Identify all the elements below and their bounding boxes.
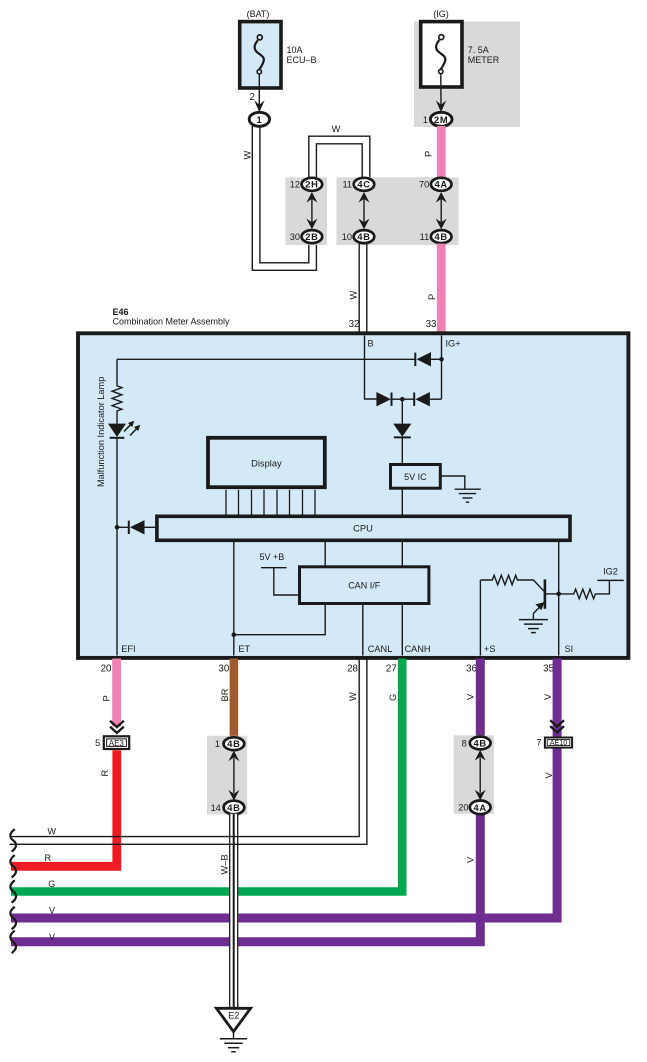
svg-text:EFI: EFI — [121, 644, 135, 654]
svg-text:2: 2 — [250, 92, 255, 103]
5V IC box — [391, 465, 441, 489]
connector oval 1 — [249, 112, 269, 126]
svg-text:IG+: IG+ — [446, 339, 461, 349]
svg-text:V: V — [466, 693, 476, 700]
arrow into connector 1 — [254, 100, 264, 112]
svg-text:CANH: CANH — [405, 644, 431, 654]
wire W-B from 4B pin 14 to E2 (white with black stripe) — [229, 814, 238, 1009]
svg-text:METER: METER — [468, 55, 500, 65]
wire fuse IG to connector 2M — [440, 74, 442, 106]
svg-text:7. 5A: 7. 5A — [468, 45, 489, 55]
connector oval 4B pin 11 — [420, 230, 452, 243]
svg-text:33: 33 — [426, 319, 437, 330]
pin number 2 — [250, 92, 255, 103]
svg-text:V: V — [466, 856, 476, 863]
svg-text:5V IC: 5V IC — [404, 472, 427, 482]
svg-text:2B: 2B — [305, 232, 318, 242]
wire label W (rotated) — [243, 151, 253, 160]
label 7.5A METER — [468, 45, 500, 65]
node junction dot MIL — [115, 525, 120, 530]
node junction dot ET — [232, 632, 237, 637]
svg-text:(IG): (IG) — [433, 9, 449, 19]
wire V violet SI to left edge (upper) — [11, 659, 557, 919]
CPU box — [157, 516, 570, 540]
continuation squiggle W — [10, 829, 16, 851]
svg-text:4B: 4B — [227, 739, 240, 749]
connector oval 4B pin 10 — [342, 230, 375, 243]
svg-text:1: 1 — [256, 115, 262, 125]
svg-text:SI: SI — [565, 644, 574, 654]
wire MIL top horizontal — [117, 358, 415, 360]
svg-text:CPU: CPU — [353, 524, 373, 534]
transistor Q1 base bar — [544, 579, 547, 608]
LED malfunction indicator lamp — [108, 421, 140, 438]
wire V violet +S to left edge (lower) — [11, 659, 480, 942]
svg-text:W: W — [348, 692, 358, 701]
transistor Q1 emitter with arrow — [533, 602, 545, 620]
svg-text:4A: 4A — [435, 180, 448, 190]
node junction dot SI — [556, 592, 561, 597]
wire SI from CPU to pin 35 — [558, 540, 560, 655]
svg-text:1: 1 — [423, 115, 428, 125]
svg-text:2M: 2M — [434, 115, 448, 125]
pin name labels bottom — [121, 644, 573, 654]
label 5V +B — [260, 552, 285, 562]
display box — [208, 438, 325, 487]
wire CPU to CAN I/F left — [324, 540, 326, 566]
svg-text:4B: 4B — [474, 738, 487, 748]
wire MIL down to EFI pin — [116, 438, 118, 656]
svg-text:10: 10 — [342, 232, 352, 242]
wire W pin32 (double line) — [359, 244, 367, 332]
transistor Q1 collector — [545, 593, 559, 595]
label (IG) — [433, 9, 449, 19]
splice chevron at AE3 — [110, 721, 124, 733]
svg-text:P: P — [427, 294, 437, 300]
svg-text:W–B: W–B — [220, 854, 230, 874]
svg-text:70: 70 — [419, 180, 429, 190]
fuse 10A ECU-B (BAT) — [240, 22, 281, 88]
E46 header labels — [113, 307, 231, 327]
wire B line from pin 32 — [365, 336, 377, 400]
wire G green CANH to left edge — [11, 659, 402, 892]
connector oval 2M pin 1 — [423, 112, 452, 126]
wire CANH from CAN I/F to pin 27 — [401, 604, 403, 656]
connector oval 4C pin 11 — [342, 178, 374, 191]
left edge labels W R G V V — [45, 826, 57, 942]
junction block J/B gray box (IG fuse) — [414, 22, 520, 128]
arrow pair between 4C and 4B — [359, 192, 370, 229]
diode D5 (CPU to MIL) — [117, 520, 157, 534]
continuation squiggle R — [10, 855, 16, 877]
svg-text:CAN I/F: CAN I/F — [348, 581, 381, 591]
svg-text:1: 1 — [215, 739, 220, 749]
wire P pink EFI pin 20 — [112, 659, 121, 727]
svg-text:(BAT): (BAT) — [247, 9, 270, 19]
svg-text:P: P — [102, 695, 112, 701]
svg-text:W: W — [332, 124, 341, 134]
wire label W — [332, 124, 341, 134]
connector oval 2B pin 30 — [290, 230, 322, 243]
svg-text:20: 20 — [101, 663, 112, 674]
svg-text:R: R — [100, 770, 110, 777]
wire IG+ line from pin 33 — [441, 336, 443, 400]
wire label P (rotated) — [424, 151, 434, 157]
svg-text:5V +B: 5V +B — [260, 552, 285, 562]
IG2 terminal — [598, 567, 624, 581]
wire label P (rotated) — [427, 294, 437, 300]
diode D2 (B to center node) — [376, 392, 402, 406]
svg-text:30: 30 — [290, 232, 300, 242]
svg-text:+S: +S — [484, 644, 496, 654]
CAN I/F box — [300, 567, 429, 604]
resistor R-base — [480, 575, 545, 592]
ground at transistor — [519, 620, 548, 633]
arrow pair between 4B and 4A — [475, 750, 486, 800]
connector oval 4B pin 14 — [211, 801, 245, 815]
wire CANL from CAN I/F to pin 28 — [362, 604, 364, 656]
connector oval 4B pin 1 — [215, 737, 244, 750]
fuse 7.5A METER (IG) — [421, 22, 462, 87]
wire fuse BAT to connector 1 — [258, 74, 260, 106]
display to CPU comb wires — [226, 490, 315, 517]
svg-text:28: 28 — [347, 663, 358, 674]
svg-text:20: 20 — [458, 803, 468, 813]
pin numbers bottom — [101, 663, 555, 674]
arrow pair between 2H and 2B — [306, 192, 317, 229]
svg-text:32: 32 — [349, 319, 360, 330]
label (BAT) — [247, 9, 270, 19]
svg-text:ET: ET — [238, 644, 250, 654]
wire label V +S below connector (rotated) — [466, 856, 476, 863]
connector oval 4A pin 20 — [458, 801, 490, 815]
node IG+ label — [446, 339, 461, 349]
resistor R-MIL — [112, 359, 122, 423]
pin number 33 — [426, 319, 437, 330]
node junction dot IG+ — [439, 357, 444, 362]
svg-text:4B: 4B — [357, 232, 370, 242]
resistor R-IG2 — [559, 580, 610, 598]
arrow pair between 4B and 4B — [228, 751, 239, 801]
wire BR brown ET pin 30 — [230, 659, 239, 738]
svg-text:5: 5 — [95, 738, 100, 748]
connector gray box 4C/4B + 4A/4B — [337, 177, 459, 245]
svg-text:12: 12 — [290, 180, 300, 190]
connector oval 4A pin 70 — [419, 178, 452, 191]
connector AE10 pin 7 — [536, 738, 572, 748]
svg-text:V: V — [49, 932, 55, 942]
diode D3 (IG+ to center node) — [402, 392, 441, 406]
wire label V SI (rotated) — [543, 693, 553, 700]
svg-text:4A: 4A — [474, 803, 487, 813]
svg-text:30: 30 — [218, 663, 229, 674]
connector gray box 2H/2B — [286, 177, 328, 245]
wire W CANL to left edge (double line) — [10, 659, 367, 845]
svg-text:W: W — [48, 826, 57, 836]
svg-text:V: V — [543, 693, 553, 700]
wire CPU to CAN I/F right — [401, 540, 403, 566]
combination meter assembly box E46 — [78, 333, 628, 658]
svg-text:4C: 4C — [357, 180, 370, 190]
wire label BR (rotated) — [220, 688, 230, 701]
svg-text:10A: 10A — [287, 45, 303, 55]
continuation squiggle V lower — [10, 931, 16, 953]
svg-text:Display: Display — [251, 458, 282, 468]
svg-text:V: V — [49, 905, 55, 915]
connector AE3 pin 5 — [95, 736, 129, 749]
wire P pink pin33 — [437, 244, 446, 332]
svg-text:2H: 2H — [305, 180, 318, 190]
wire 5V +B feed to CAN I/F — [261, 568, 300, 595]
label 10A ECU-B — [287, 45, 317, 65]
wire W from 2H up right down to 4C (double line) — [309, 136, 370, 178]
arrow pair between 4A and 4B — [436, 192, 447, 229]
arrow into connector 2M — [436, 100, 446, 112]
wire 5V IC to CPU — [401, 488, 403, 516]
diode D4 (series down to 5V IC) — [393, 399, 411, 464]
svg-text:8: 8 — [462, 739, 467, 749]
svg-text:AE10: AE10 — [550, 738, 568, 747]
svg-text:Combination Meter Assembly: Combination Meter Assembly — [113, 317, 231, 327]
wire label W (rotated) — [349, 291, 359, 300]
svg-text:AE3: AE3 — [109, 739, 125, 748]
ground E2 — [216, 1008, 250, 1052]
svg-text:4B: 4B — [227, 803, 240, 813]
wire label V SI below AE10 (rotated) — [544, 772, 554, 779]
svg-text:R: R — [45, 853, 52, 863]
connector oval 2H pin 12 — [290, 178, 322, 191]
continuation squiggle G — [10, 880, 16, 902]
svg-text:11: 11 — [420, 232, 430, 242]
svg-text:E2: E2 — [228, 1011, 239, 1021]
svg-text:14: 14 — [211, 803, 221, 813]
node B label — [368, 339, 374, 349]
wire label W-B (rotated) — [220, 854, 230, 874]
svg-text:7: 7 — [536, 738, 541, 748]
svg-text:W: W — [243, 151, 253, 160]
wire +S line — [479, 580, 481, 656]
wire P pink from 2M to 4A — [437, 126, 446, 179]
diode D1 (IG+ to MIL line) — [415, 352, 441, 366]
svg-text:IG2: IG2 — [603, 567, 618, 577]
wire label R (rotated) — [100, 770, 110, 777]
svg-text:W: W — [349, 291, 359, 300]
svg-text:G: G — [48, 879, 55, 889]
pin number 32 — [349, 319, 360, 330]
svg-text:CANL: CANL — [368, 644, 393, 654]
svg-text:V: V — [544, 772, 554, 779]
wire label P (rotated) — [102, 695, 112, 701]
node junction dot center — [400, 397, 405, 402]
label Malfunction Indicator Lamp (rotated) — [96, 377, 106, 487]
wire R red from AE3 to left edge — [11, 750, 117, 866]
svg-text:G: G — [388, 694, 398, 701]
splice chevron at AE10 — [550, 720, 564, 732]
continuation squiggle V upper — [10, 907, 16, 929]
svg-text:Malfunction Indicator Lamp: Malfunction Indicator Lamp — [96, 377, 106, 487]
svg-text:P: P — [424, 151, 434, 157]
svg-text:B: B — [368, 339, 374, 349]
wire label V +S (rotated) — [466, 693, 476, 700]
wire CAN I/F to ET junction — [234, 604, 325, 635]
wire W from connector 1 down right up to 2B (double line) — [252, 126, 316, 270]
connector gray box 4B/4B — [207, 736, 247, 815]
connector oval 4B pin 8 — [462, 737, 491, 750]
connector gray box 4B/4A — [454, 735, 494, 813]
wire label W CANL (rotated) — [348, 692, 358, 701]
svg-text:4B: 4B — [435, 232, 448, 242]
svg-text:11: 11 — [342, 180, 352, 190]
ground at 5V IC — [440, 476, 480, 502]
wire ET from CPU to pin 30 — [233, 540, 235, 655]
wire label G (rotated) — [388, 694, 398, 701]
svg-text:ECU–B: ECU–B — [287, 55, 317, 65]
svg-text:E46: E46 — [113, 307, 129, 317]
svg-text:BR: BR — [220, 688, 230, 701]
svg-text:27: 27 — [386, 663, 397, 674]
